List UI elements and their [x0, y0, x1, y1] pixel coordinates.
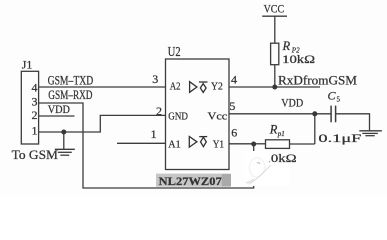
svg-text:GSM–TXD: GSM–TXD — [48, 73, 94, 87]
svg-text:p1: p1 — [277, 130, 285, 138]
svg-text:3: 3 — [32, 95, 38, 109]
svg-text:VDD: VDD — [281, 97, 303, 109]
capacitor C5 plates — [331, 106, 336, 123]
ground at C5 — [359, 131, 382, 136]
junction J1 pin1 — [61, 130, 66, 135]
resistor RP1 — [254, 140, 315, 149]
wire J1 pin1 to U2 GND — [39, 115, 166, 132]
svg-text:5: 5 — [337, 96, 341, 104]
svg-text:1: 1 — [151, 127, 157, 141]
buffer symbol channel A2/Y2 — [190, 82, 208, 93]
svg-text:U2: U2 — [168, 44, 181, 59]
svg-text:0.1μF: 0.1μF — [318, 133, 361, 145]
eraser smudge blob — [244, 151, 290, 186]
junction Y2/RP2 — [272, 85, 277, 90]
wire A1 stub — [117, 142, 166, 144]
svg-text:Y1: Y1 — [213, 138, 224, 150]
junction VDD/C5 — [312, 111, 317, 116]
svg-text:4: 4 — [231, 72, 237, 86]
svg-text:6: 6 — [231, 125, 237, 139]
wire VDD stub — [39, 115, 75, 117]
svg-text:1: 1 — [32, 124, 38, 138]
wire Y1 — [229, 143, 254, 145]
wire RP1 to VDD junction — [314, 114, 316, 144]
svg-text:A1: A1 — [168, 138, 180, 150]
svg-text:4: 4 — [32, 80, 38, 94]
svg-text:J1: J1 — [22, 60, 33, 72]
svg-text:VDD: VDD — [48, 104, 70, 116]
svg-text:RxDfromGSM: RxDfromGSM — [278, 73, 357, 88]
power VCC bar — [262, 15, 287, 17]
svg-text:GSM–RXD: GSM–RXD — [48, 88, 92, 102]
resistor RP2 — [271, 16, 279, 87]
svg-text:R: R — [282, 39, 291, 53]
svg-text:2: 2 — [32, 108, 38, 122]
wire GSM-TXD — [39, 86, 166, 88]
wire Y2 RxDfromGSM — [229, 86, 320, 88]
svg-text:Y2: Y2 — [211, 81, 223, 93]
svg-text:VCC: VCC — [264, 3, 285, 15]
svg-text:Vcc: Vcc — [208, 110, 228, 122]
ground at J1 — [55, 132, 75, 155]
svg-text:C: C — [328, 89, 337, 103]
wire cap to ground — [336, 114, 370, 131]
svg-text:10kΩ: 10kΩ — [282, 54, 315, 66]
svg-text:3: 3 — [152, 72, 158, 86]
IC U2 box — [166, 59, 230, 170]
svg-text:5: 5 — [229, 99, 235, 113]
wire Vcc to VDD/cap — [229, 113, 331, 115]
svg-text:A2: A2 — [170, 81, 181, 93]
svg-text:2: 2 — [156, 104, 162, 118]
svg-text:R: R — [269, 123, 278, 137]
connector J1 — [21, 71, 38, 144]
buffer symbol channel A1/Y1 — [189, 137, 207, 148]
junction Y1/RP1 — [251, 142, 256, 147]
svg-text:NL27WZ07: NL27WZ07 — [159, 174, 222, 188]
svg-text:GND: GND — [168, 110, 188, 122]
svg-text:To GSM: To GSM — [12, 148, 58, 162]
wire GSM-RXD — [39, 103, 254, 188]
label NL27WZ07 highlight — [156, 174, 231, 187]
